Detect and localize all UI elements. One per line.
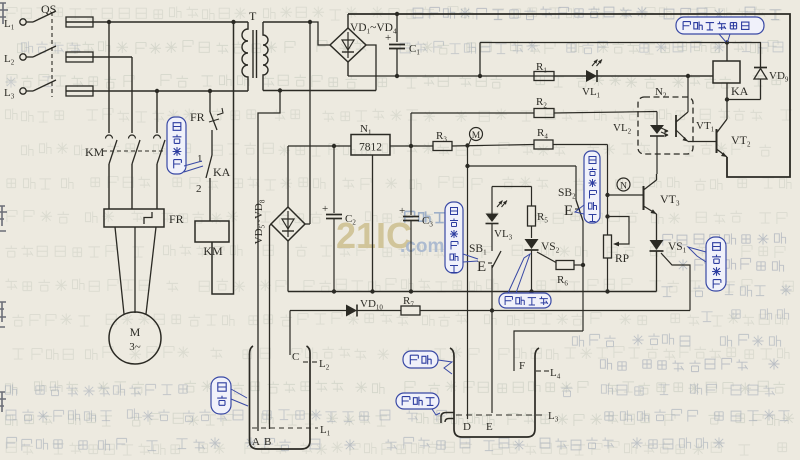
wire L1 rail: [93, 21, 248, 23]
transistor VT3: [643, 186, 645, 210]
button SB2 manual start: [575, 166, 577, 200]
wire long drop to lower bridge: [309, 22, 311, 224]
capacitor C2: [333, 146, 335, 213]
resistor R6 / VS2 gate: [537, 252, 556, 263]
svg-text:M: M: [472, 131, 481, 141]
resistor R5: [531, 187, 533, 207]
svg-text:3~: 3~: [129, 341, 141, 353]
wire to VT3 base: [608, 194, 644, 196]
svg-text:FR: FR: [169, 212, 184, 226]
label manual-start button (blue): [584, 151, 600, 223]
wire KM coil return to L1: [212, 22, 234, 294]
outlet pipe: [441, 413, 454, 424]
svg-text:A: A: [252, 436, 260, 448]
fuse FU1: [66, 17, 93, 27]
terminal L1: [20, 19, 26, 25]
LED VL3 / R5 branch: [492, 186, 532, 188]
label stop-pump control (blue): [499, 293, 551, 308]
label outlet (blue): [396, 393, 439, 409]
label transistor-relay (blue callout): [676, 17, 764, 34]
terminal L3: [20, 88, 26, 94]
wire B electrode from left vertex: [270, 224, 272, 429]
svg-text:B: B: [264, 436, 271, 448]
svg-text:VD5~VD8: VD5~VD8: [253, 199, 267, 244]
wire secondary bottom: [263, 90, 376, 92]
node M: [470, 128, 483, 141]
bridge rectifier VD1~VD4: [330, 28, 366, 62]
wire riser to relay row: [479, 43, 481, 77]
wire AC right vertex: [366, 45, 376, 91]
wire C electrode line: [289, 311, 291, 356]
label well (blue): [211, 377, 231, 414]
potentiometer RP: [604, 235, 612, 258]
svg-text:N: N: [620, 182, 627, 192]
wire +12V output: [390, 145, 433, 147]
wire F electrode: [514, 331, 583, 371]
motor M 3~: [109, 312, 161, 364]
wire VS1 gate to R7 line: [661, 253, 690, 311]
svg-text:FR: FR: [190, 110, 205, 124]
capacitor C1: [396, 14, 398, 42]
wire R4 to node column: [607, 145, 609, 236]
svg-text:KA: KA: [731, 84, 749, 98]
svg-text:RP: RP: [615, 253, 629, 265]
wire ground rail: [287, 241, 289, 292]
wire +V top rail: [347, 14, 349, 28]
fuse FU2: [66, 52, 93, 62]
wire electrode A drop: [258, 91, 280, 432]
bridge rectifier VD5~VD8: [271, 207, 305, 241]
thyristor VS1: [656, 214, 658, 240]
contact FR (NC): [209, 91, 211, 112]
thermal relay FR heater box: [104, 209, 164, 227]
thyristor VS2: [525, 239, 539, 249]
wire N1 gnd pin: [372, 155, 374, 292]
page-edge print fragments: [0, 3, 8, 412]
svg-text:T: T: [249, 9, 257, 23]
wire phase drops to KM: [108, 22, 110, 133]
diode VD10: [346, 305, 357, 317]
margin printed text: [413, 6, 780, 19]
dashed level L3: [456, 414, 546, 416]
svg-text:.com: .com: [400, 236, 444, 257]
wire M to SB2: [468, 165, 577, 167]
svg-text:D: D: [463, 421, 471, 433]
svg-text:+: +: [399, 205, 405, 217]
svg-text:E: E: [477, 259, 486, 275]
ghost bleed-through text: [7, 6, 782, 20]
transistor VT2: [688, 141, 717, 143]
label pump-start control 2 (blue): [706, 237, 726, 291]
svg-text:+: +: [385, 32, 391, 44]
label pump-start control (blue callout): [167, 117, 186, 174]
svg-text:KM: KM: [85, 145, 105, 159]
label water-tower (blue): [403, 351, 438, 368]
LED VL1: [586, 70, 597, 82]
wire L3 rail: [93, 90, 248, 92]
coil KM: [195, 221, 229, 242]
svg-text:E: E: [564, 203, 573, 219]
dashed level L1: [252, 427, 318, 429]
wire bridge2 + to N1 input: [288, 145, 351, 147]
phototransistor VT1: [675, 115, 677, 137]
svg-text:2: 2: [196, 183, 202, 195]
node N: [617, 178, 630, 191]
svg-text:C: C: [292, 351, 299, 363]
wire secondary top: [263, 21, 310, 23]
fuse FU3: [66, 86, 93, 96]
svg-text:M: M: [130, 325, 141, 339]
resistor R2: [411, 112, 534, 114]
wire bridge 0V bottom: [347, 62, 349, 76]
svg-text:KM: KM: [203, 244, 223, 258]
svg-text:1: 1: [197, 153, 203, 165]
relay coil KA: [713, 61, 740, 83]
tower walls: [450, 348, 539, 437]
wire L2 rail: [93, 56, 132, 58]
terminal L2: [20, 54, 26, 60]
well walls: [250, 346, 311, 449]
label manual-stop button (blue): [445, 202, 463, 273]
wires FR to motor: [115, 227, 124, 314]
capacitor C3 / R2 riser: [410, 113, 412, 215]
wire M node column to D electrode: [467, 146, 469, 420]
svg-text:+: +: [322, 203, 328, 215]
wire AC feed to upper bridge: [310, 22, 330, 45]
svg-text:KA: KA: [213, 165, 231, 179]
svg-text:F: F: [519, 360, 525, 372]
svg-text:E: E: [486, 421, 493, 433]
svg-text:7812: 7812: [359, 142, 382, 154]
diode VD9: [760, 43, 762, 68]
